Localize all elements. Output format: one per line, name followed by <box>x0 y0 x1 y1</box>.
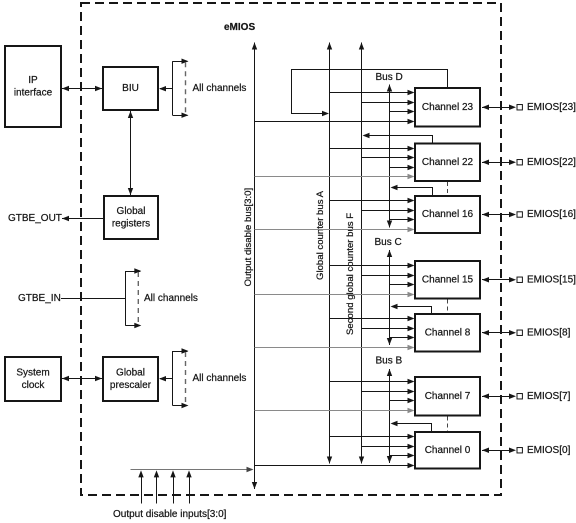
svg-text:clock: clock <box>22 380 46 391</box>
svg-text:BIU: BIU <box>122 83 139 94</box>
svg-text:All channels: All channels <box>193 83 247 94</box>
svg-text:Bus B: Bus B <box>376 356 403 367</box>
svg-text:Channel 23: Channel 23 <box>422 102 474 113</box>
svg-text:Channel 8: Channel 8 <box>425 327 471 338</box>
svg-text:Channel 22: Channel 22 <box>422 157 474 168</box>
svg-text:registers: registers <box>112 218 150 229</box>
svg-text:GTBE_OUT: GTBE_OUT <box>8 213 62 224</box>
svg-text:IP: IP <box>28 75 38 86</box>
svg-text:All channels: All channels <box>144 293 198 304</box>
svg-text:GTBE_IN: GTBE_IN <box>18 293 61 304</box>
svg-text:Channel 15: Channel 15 <box>422 274 474 285</box>
svg-text:Channel 0: Channel 0 <box>425 445 471 456</box>
svg-text:System: System <box>16 367 49 378</box>
svg-text:prescaler: prescaler <box>110 380 152 391</box>
svg-text:eMIOS: eMIOS <box>224 22 255 33</box>
svg-text:Global: Global <box>116 367 145 378</box>
svg-text:Global counter bus A: Global counter bus A <box>315 190 326 280</box>
svg-text:EMIOS[0]: EMIOS[0] <box>527 445 571 456</box>
svg-text:Output disable bus[3:0]: Output disable bus[3:0] <box>243 188 254 287</box>
svg-text:interface: interface <box>14 87 53 98</box>
svg-text:Output disable inputs[3:0]: Output disable inputs[3:0] <box>113 509 227 520</box>
svg-text:EMIOS[15]: EMIOS[15] <box>527 274 576 285</box>
svg-text:EMIOS[8]: EMIOS[8] <box>527 327 571 338</box>
svg-text:Second global counter bus F: Second global counter bus F <box>345 213 356 335</box>
svg-text:Channel 7: Channel 7 <box>425 391 471 402</box>
svg-text:EMIOS[23]: EMIOS[23] <box>527 102 576 113</box>
svg-text:EMIOS[16]: EMIOS[16] <box>527 209 576 220</box>
svg-text:Bus C: Bus C <box>375 237 402 248</box>
svg-text:Channel 16: Channel 16 <box>422 209 474 220</box>
svg-text:Bus D: Bus D <box>376 72 403 83</box>
svg-text:Global: Global <box>117 206 146 217</box>
svg-text:EMIOS[7]: EMIOS[7] <box>527 391 571 402</box>
svg-text:EMIOS[22]: EMIOS[22] <box>527 157 576 168</box>
svg-text:All channels: All channels <box>193 373 247 384</box>
